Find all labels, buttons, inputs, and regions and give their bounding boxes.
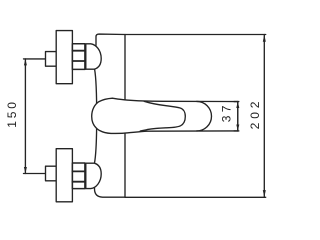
dimension 202 bottom extension line [125, 196, 266, 198]
top connection group [24, 31, 102, 84]
pipe nipple (top) [46, 52, 57, 67]
escutcheon (top) [56, 31, 72, 84]
lever handle outer [92, 98, 238, 133]
dimension 37 top extension tick [234, 101, 239, 103]
faucet body [95, 34, 126, 197]
wire: feed stub / 150 top extension [24, 58, 46, 60]
cone joint (top) [86, 44, 101, 69]
arrow 37 bottom [236, 124, 239, 131]
dimension 37 bottom extension tick [234, 130, 239, 132]
arrow 202 top [263, 35, 266, 42]
dimension 202 top extension line [125, 34, 266, 36]
dimension 150 line [24, 59, 26, 174]
pipe nipple (bottom) [46, 166, 57, 181]
arrow 37 top [236, 102, 239, 109]
hex nut (bottom) [72, 163, 85, 189]
dimension 202 line [263, 35, 265, 198]
wire: feed stub / 150 bottom extension [24, 173, 46, 175]
svg-text:37: 37 [219, 102, 233, 122]
cone joint (bottom) [86, 163, 101, 188]
cartridge dome arc [197, 101, 212, 131]
bottom connection group (mirror of top) [24, 149, 102, 202]
lever grip inner outline [140, 101, 185, 131]
arrow 202 bottom [263, 190, 266, 197]
svg-text:202: 202 [248, 98, 262, 130]
svg-text:150: 150 [5, 99, 19, 127]
escutcheon (bottom) [56, 149, 72, 202]
arrow 150 top [24, 59, 27, 66]
hex nut (top) [72, 44, 85, 70]
dimension 37 line [237, 102, 239, 131]
arrow 150 bottom [24, 167, 27, 174]
